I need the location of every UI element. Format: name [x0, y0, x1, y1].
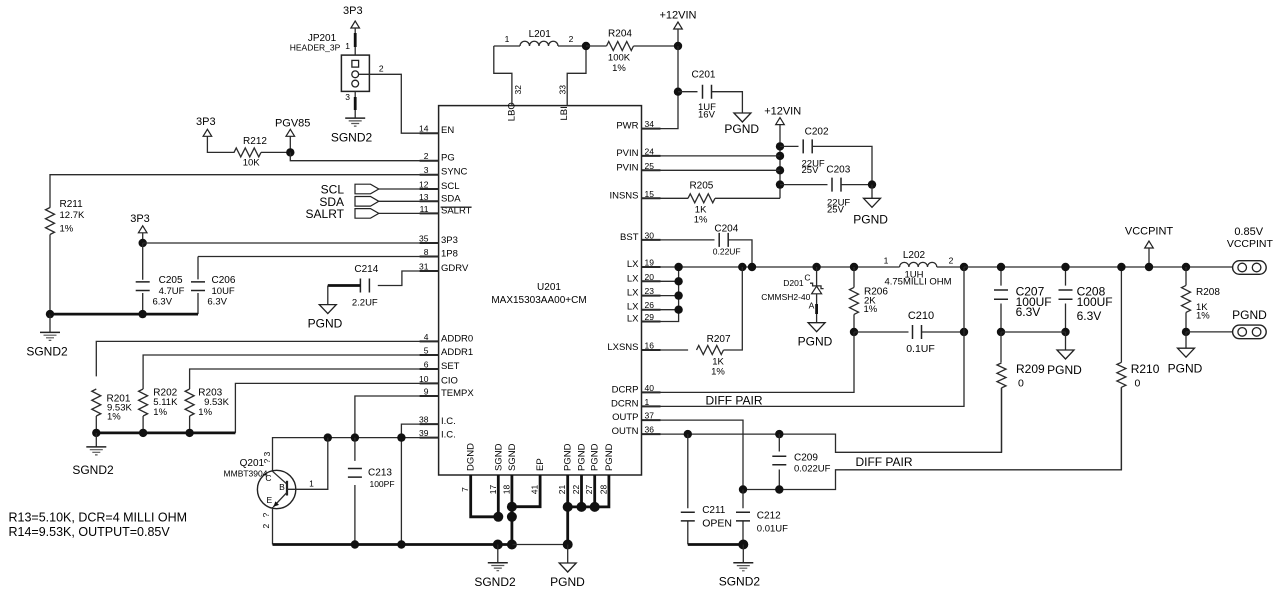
svg-text:PVIN: PVIN	[616, 162, 638, 173]
svg-text:Q201: Q201	[240, 458, 265, 469]
svg-text:+12VIN: +12VIN	[764, 106, 801, 118]
svg-text:OPEN: OPEN	[702, 518, 732, 530]
capacitor C213 100PF	[348, 438, 395, 545]
node pin39/TEMPX junction	[351, 433, 359, 441]
pin 12 SCL (U201 left)	[419, 180, 459, 193]
node OUTP C212 junction	[739, 485, 747, 493]
wire bottom SGND2 bus	[273, 543, 512, 546]
node R207 junction	[738, 263, 746, 271]
svg-text:DIFF PAIR: DIFF PAIR	[705, 394, 762, 408]
svg-text:3P3: 3P3	[196, 116, 216, 128]
capacitor C206 10UF 6.3V	[191, 257, 236, 315]
wire bus to PGND node	[512, 544, 568, 546]
wire JP201 pin3 to ground	[345, 91, 355, 118]
svg-text:SGND: SGND	[507, 443, 518, 471]
svg-text:R208: R208	[1196, 287, 1220, 298]
svg-text:100UF: 100UF	[1077, 295, 1113, 309]
svg-text:SGND2: SGND2	[474, 575, 516, 589]
node PGV85 junction	[286, 148, 294, 156]
node 3P3 junction	[139, 239, 147, 247]
svg-text:R210: R210	[1131, 362, 1160, 376]
pin 19 LX (U201 right)	[627, 258, 661, 271]
wire C211 to C212 bottom	[688, 543, 744, 546]
node bus SGND2 junction	[493, 540, 503, 550]
svg-text:10UF: 10UF	[212, 286, 235, 297]
node OUTN C209 junction	[775, 430, 783, 438]
svg-text:C210: C210	[908, 310, 934, 322]
power net +12VIN (top)	[660, 10, 697, 30]
svg-text:0: 0	[1018, 378, 1024, 390]
svg-text:37: 37	[645, 411, 655, 421]
resistor R203 9.53K 1%	[185, 388, 229, 419]
wire U201 INSNS pin15 to R205	[642, 197, 689, 199]
ground PGND (D201)	[798, 323, 833, 349]
pin 16 LXSNS (U201 right)	[607, 341, 660, 354]
wire U201 OUTN pin36 to R209 (diff pair)	[642, 388, 1002, 452]
svg-text:EN: EN	[441, 125, 454, 136]
resistor R211 12.7K 1%	[46, 199, 85, 235]
wire C201 to PGND	[712, 92, 743, 113]
svg-text:PGV85: PGV85	[275, 118, 310, 130]
svg-text:PGND: PGND	[1168, 362, 1203, 376]
pin 24 PVIN (U201 right)	[616, 146, 660, 159]
pin 25 PVIN (U201 right)	[616, 161, 660, 174]
ground PGND (C208)	[1047, 332, 1082, 377]
svg-text:VCCPINT: VCCPINT	[1125, 226, 1174, 238]
svg-text:2: 2	[379, 64, 384, 74]
wire C204 down to LX node	[728, 240, 752, 267]
wire DCRP pin40 to R206 bottom	[642, 332, 855, 392]
svg-text:PG: PG	[441, 153, 455, 164]
node +12VIN junction	[674, 42, 682, 50]
ground PGND (C203)	[853, 198, 888, 226]
pin 26 LX (U201 right)	[627, 300, 661, 313]
ground PGND (below U201)	[550, 545, 585, 590]
pin 8 1P8 (U201 left)	[420, 247, 458, 260]
resistor R202 5.11K 1%	[139, 388, 178, 419]
capacitor C212 0.01UF	[736, 490, 788, 545]
svg-text:12: 12	[419, 180, 429, 190]
wire U201 LX pin26	[642, 309, 679, 311]
node L202 out junction	[960, 263, 968, 271]
ground SGND2 (below U201)	[474, 545, 516, 590]
pin 18 SGND (U201 bottom)	[501, 443, 518, 494]
svg-text:GDRV: GDRV	[441, 263, 469, 274]
node pin27 junction	[590, 502, 600, 512]
node LX26 junction	[674, 306, 682, 314]
svg-text:1%: 1%	[1196, 311, 1210, 322]
svg-text:INSNS: INSNS	[609, 190, 638, 201]
wire U201 I.C. pin39 to Q201 collector	[273, 438, 439, 472]
pin 7 DGND (U201 bottom)	[460, 443, 477, 492]
wire C207-C208 ground bus	[1001, 331, 1066, 333]
svg-text:15: 15	[645, 189, 655, 199]
svg-text:0.01UF: 0.01UF	[757, 524, 788, 535]
wire DCRN pin1 up to L202 node	[642, 267, 965, 406]
pin 34 PWR (U201 right)	[616, 119, 660, 132]
wire resistor ground bus	[96, 431, 235, 434]
pin 23 LX (U201 right)	[627, 286, 661, 299]
svg-text:1%: 1%	[612, 63, 626, 74]
ground SGND2 (below R211)	[26, 332, 68, 358]
svg-text:40: 40	[645, 383, 655, 393]
svg-text:C205: C205	[159, 275, 183, 286]
pin 9 TEMPX (U201 left)	[420, 387, 475, 400]
svg-text:?: ?	[261, 513, 271, 518]
svg-text:DCRP: DCRP	[612, 384, 639, 395]
wire U201 BST pin30 to C204	[642, 239, 715, 241]
svg-text:SGND2: SGND2	[331, 131, 373, 145]
svg-text:19: 19	[645, 258, 655, 268]
wire U201 LX pin23	[642, 295, 679, 297]
svg-text:11: 11	[420, 204, 429, 214]
pin 39 I.C. (U201 left)	[419, 428, 456, 441]
node pin17 junction	[493, 512, 503, 522]
svg-text:PGND: PGND	[308, 317, 343, 331]
node LX20 junction	[674, 277, 682, 285]
pin 27 PGND (U201 bottom)	[584, 443, 601, 494]
svg-text:2: 2	[949, 256, 954, 266]
svg-text:L201: L201	[529, 29, 552, 40]
svg-text:R212: R212	[243, 136, 267, 147]
svg-text:SGND2: SGND2	[26, 345, 68, 359]
node C210 right junction	[960, 328, 968, 336]
svg-text:SET: SET	[441, 361, 460, 372]
svg-text:A: A	[809, 301, 815, 311]
svg-text:4: 4	[424, 332, 429, 342]
capacitor C211 OPEN	[681, 434, 732, 544]
inductor L201	[494, 29, 586, 46]
node bus C213 junction	[351, 540, 359, 548]
svg-text:LX: LX	[627, 259, 639, 270]
svg-text:17: 17	[488, 485, 498, 495]
ground PGND (C201)	[724, 113, 759, 136]
node PVIN25 junction	[776, 166, 784, 174]
svg-text:24: 24	[645, 146, 655, 156]
pin 36 OUTN (U201 right)	[612, 425, 661, 438]
pin 15 INSNS (U201 right)	[609, 189, 660, 202]
wire pin18 SGND down to bus	[510, 475, 513, 545]
svg-text:6.3V: 6.3V	[153, 297, 173, 308]
node pin22 junction	[577, 502, 587, 512]
svg-text:1: 1	[309, 479, 314, 489]
svg-text:31: 31	[419, 262, 429, 272]
svg-text:MAX15303AA00+CM: MAX15303AA00+CM	[491, 295, 586, 306]
wire R208 to PGND connector	[1186, 331, 1233, 333]
resistor R212 10K	[234, 136, 267, 169]
svg-text:LX: LX	[627, 314, 639, 325]
node LX19 junction	[674, 263, 682, 271]
node C212 bottom junction	[738, 540, 748, 550]
transistor Q201 MMBT3904	[224, 438, 328, 545]
svg-text:3P3: 3P3	[130, 213, 150, 225]
svg-text:1%: 1%	[153, 407, 167, 418]
power net VCCPINT	[1125, 226, 1174, 268]
resistor R209 0	[997, 332, 1045, 452]
svg-text:EP: EP	[535, 458, 546, 471]
wire pin28 PGND down	[568, 475, 609, 507]
svg-text:41: 41	[530, 485, 540, 495]
svg-text:E: E	[266, 495, 272, 505]
pin 38 I.C. (U201 left)	[419, 415, 456, 428]
svg-text:TEMPX: TEMPX	[441, 388, 474, 399]
pin 4 ADDR0 (U201 left)	[420, 332, 474, 345]
svg-text:32: 32	[513, 85, 523, 95]
svg-text:1P8: 1P8	[441, 249, 458, 260]
svg-text:16V: 16V	[698, 109, 716, 120]
node pin18/pin7 junction	[507, 512, 517, 522]
svg-text:34: 34	[645, 119, 655, 129]
pin 21 PGND (U201 bottom)	[557, 443, 574, 494]
svg-text:DCRN: DCRN	[611, 398, 639, 409]
svg-text:PGND: PGND	[563, 443, 574, 471]
svg-text:PVIN: PVIN	[616, 148, 638, 159]
capacitor C202 22UF 25V	[780, 127, 872, 185]
wire U201 PVIN pin24	[642, 155, 781, 157]
svg-text:SGND2: SGND2	[719, 575, 761, 589]
svg-text:R204: R204	[608, 29, 632, 40]
ground SGND2 (below JP201)	[331, 118, 373, 144]
svg-text:6.3V: 6.3V	[1077, 309, 1102, 323]
node R201 bus junction	[92, 429, 100, 437]
svg-text:LBI: LBI	[559, 106, 570, 120]
node C203 PGND junction	[868, 180, 876, 188]
node LX23 junction	[674, 291, 682, 299]
wire U201 I.C. pin38 to bus	[401, 424, 438, 544]
svg-text:30: 30	[645, 230, 655, 240]
node R206 top junction	[850, 263, 858, 271]
svg-text:1: 1	[505, 34, 510, 44]
svg-text:LX: LX	[627, 273, 639, 284]
svg-text:C201: C201	[692, 70, 716, 81]
wire pin22 PGND down	[580, 475, 583, 507]
svg-text:33: 33	[558, 85, 568, 95]
net label 0.85V VCCPINT	[1227, 226, 1274, 250]
svg-text:C: C	[265, 473, 271, 483]
svg-text:25: 25	[645, 161, 655, 171]
node pin39/pin38 junction	[397, 433, 405, 441]
svg-text:SALRT: SALRT	[306, 207, 345, 221]
wire U201 CIO pin10 to resistor bus	[235, 383, 438, 433]
wire OUTP lower row to R210	[743, 387, 1121, 489]
svg-text:1%: 1%	[711, 367, 725, 378]
wire VCC rail L202 to connector	[964, 266, 1233, 268]
svg-text:PGND: PGND	[1047, 363, 1082, 377]
svg-text:C213: C213	[368, 468, 392, 479]
svg-text:I.C.: I.C.	[441, 430, 456, 441]
pin 33 LBI (U201 top)	[558, 85, 571, 121]
svg-text:14: 14	[419, 124, 429, 134]
node R208 bottom junction	[1182, 328, 1190, 336]
svg-text:HEADER_3P: HEADER_3P	[290, 43, 341, 53]
svg-text:18: 18	[501, 485, 511, 495]
svg-text:35: 35	[419, 234, 429, 244]
pin 22 PGND (U201 bottom)	[571, 443, 588, 494]
wire U201 GDRV pin31 to C214	[378, 271, 439, 286]
svg-text:C211: C211	[702, 505, 726, 516]
svg-text:36: 36	[645, 425, 655, 435]
svg-text:DGND: DGND	[466, 443, 477, 471]
svg-text:LX: LX	[627, 288, 639, 299]
svg-text:1%: 1%	[60, 224, 74, 235]
svg-text:1%: 1%	[198, 407, 212, 418]
node C205 ground junction	[138, 310, 146, 318]
svg-text:12.7K: 12.7K	[60, 210, 85, 221]
resistor R206 2K 1%	[850, 267, 889, 332]
node R206 bottom junction	[850, 328, 858, 336]
svg-text:R207: R207	[707, 334, 731, 345]
resistor R201 9.53K 1%	[92, 389, 133, 423]
svg-text:CMMSH2-40: CMMSH2-40	[761, 292, 810, 302]
svg-text:ADDR1: ADDR1	[441, 347, 473, 358]
svg-text:R209: R209	[1016, 362, 1045, 376]
svg-text:0.1UF: 0.1UF	[906, 343, 935, 355]
svg-text:VCCPINT: VCCPINT	[1227, 238, 1274, 250]
resistor R208 1K 1%	[1182, 267, 1221, 332]
svg-text:5: 5	[424, 346, 429, 356]
svg-text:8: 8	[424, 247, 429, 257]
svg-text:10: 10	[419, 374, 429, 384]
capacitor C208 100UF 6.3V	[1059, 267, 1113, 332]
svg-text:39: 39	[419, 428, 429, 438]
svg-text:6.3V: 6.3V	[207, 297, 227, 308]
pin 31 GDRV (U201 left)	[419, 262, 469, 275]
ground PGND (R208)	[1168, 348, 1203, 375]
wire 3P3 to R212	[207, 136, 234, 152]
svg-text:PGND: PGND	[604, 443, 615, 471]
svg-text:D201: D201	[783, 278, 804, 288]
node C201 junction	[674, 88, 682, 96]
svg-text:C209: C209	[794, 453, 818, 464]
node R208 top junction	[1182, 263, 1190, 271]
svg-text:0.85V: 0.85V	[1234, 226, 1263, 238]
wire R204 to +12VIN node	[634, 45, 679, 47]
pin 35 3P3 (U201 left)	[419, 234, 458, 247]
net flag SDA	[319, 195, 438, 209]
node pin18/EP junction	[507, 502, 517, 512]
power net 3P3 (left, C205)	[130, 213, 150, 233]
pin 20 LX (U201 right)	[627, 272, 661, 285]
wire U201 ADDR0 pin4 to R201	[96, 341, 438, 376]
pin 17 SGND (U201 bottom)	[488, 443, 505, 494]
svg-text:1: 1	[645, 397, 650, 407]
node R210 junction	[1117, 263, 1125, 271]
svg-text:PGND: PGND	[590, 443, 601, 471]
pin 30 BST (U201 right)	[620, 230, 660, 243]
wire +12VIN rail down	[779, 125, 781, 199]
svg-text:C202: C202	[805, 127, 829, 138]
wire pin27 PGND down	[593, 475, 596, 507]
wire L201 to R204	[586, 45, 607, 47]
inductor L202 1UH 4.75MILLI OHM	[884, 250, 964, 288]
node OUTN C211 junction	[684, 430, 692, 438]
wire pin41 EP down	[512, 475, 540, 507]
svg-text:3: 3	[262, 452, 272, 457]
svg-text:SCL: SCL	[441, 181, 459, 192]
svg-text:C204: C204	[714, 224, 738, 235]
resistor R204 100K 1%	[607, 29, 634, 75]
svg-text:1: 1	[884, 256, 889, 266]
ground PGND (below C214)	[308, 305, 343, 331]
svg-text:2.2UF: 2.2UF	[352, 298, 378, 309]
wire pin17 SGND down	[497, 475, 500, 517]
capacitor C204 0.22UF	[713, 224, 741, 257]
pin 3 SYNC (U201 left)	[420, 165, 468, 178]
svg-text:+12VIN: +12VIN	[660, 10, 697, 22]
svg-text:PGND: PGND	[724, 122, 759, 136]
connector JP201 HEADER_3P	[290, 33, 370, 91]
svg-text:R14=9.53K, OUTPUT=0.85V: R14=9.53K, OUTPUT=0.85V	[9, 525, 171, 539]
svg-text:4.7UF: 4.7UF	[159, 286, 185, 297]
wire R211 to ground bus	[49, 235, 51, 315]
capacitor C203 22UF 25V	[780, 165, 872, 216]
wire U201 ADDR1 pin5 to R202	[143, 355, 439, 389]
svg-text:SDA: SDA	[441, 193, 461, 204]
svg-text:PGND: PGND	[1232, 308, 1267, 322]
svg-text:6.3V: 6.3V	[1016, 305, 1041, 319]
node L201 pin2 junction	[582, 42, 590, 50]
wire U201 LBI pin33 up	[567, 46, 586, 106]
wire ground bus C205-C206	[50, 313, 198, 316]
svg-text:OUTP: OUTP	[612, 412, 638, 423]
svg-text:100PF: 100PF	[369, 479, 394, 489]
wire R207 up to LX node	[724, 267, 743, 350]
node R203 bus junction	[185, 429, 193, 437]
pin 10 CIO (U201 left)	[419, 374, 458, 387]
svg-text:SGND: SGND	[493, 443, 504, 471]
svg-text:LXSNS: LXSNS	[607, 342, 638, 353]
pin 40 DCRP (U201 right)	[612, 383, 661, 396]
op-amp U1: IC U201 MAX15303AA00+CM body	[439, 106, 642, 475]
pin 11 SALRT (U201 left)	[420, 204, 472, 217]
node pin39/base junction	[324, 433, 332, 441]
svg-text:3P3: 3P3	[441, 235, 458, 246]
svg-text:2: 2	[569, 34, 574, 44]
node C207 top junction	[997, 263, 1005, 271]
svg-text:22: 22	[571, 485, 581, 495]
wire R212 to PGV85 node	[261, 151, 290, 153]
node D201 junction	[812, 263, 820, 271]
svg-text:B: B	[279, 482, 285, 492]
pin 5 ADDR1 (U201 left)	[420, 346, 474, 359]
wire U201 OUTP pin37 route	[642, 420, 744, 489]
wire R201 to ground	[95, 433, 97, 447]
wire +12VIN down to PWR	[642, 46, 679, 129]
svg-text:27: 27	[584, 485, 594, 495]
capacitor C201 1UF 16V	[678, 70, 716, 121]
capacitor C205 4.7UF 6.3V	[136, 243, 185, 314]
node pin21 bus junction	[563, 540, 573, 550]
pin 6 SET (U201 left)	[420, 360, 460, 373]
svg-text:23: 23	[645, 286, 655, 296]
node C207 bottom junction	[997, 328, 1005, 336]
wire U201 SET pin6 to R203	[190, 369, 439, 389]
diode D201 CMMSH2-40 schottky	[761, 267, 823, 323]
resistor R210 0	[1117, 267, 1160, 470]
svg-text:21: 21	[557, 485, 567, 495]
capacitor C214 2.2UF	[352, 264, 379, 309]
wire pin7 DGND down	[471, 475, 499, 517]
connector J 0.85V output	[1233, 261, 1267, 275]
svg-text:PGND: PGND	[550, 575, 585, 589]
svg-text:R205: R205	[689, 181, 713, 192]
node bus pin38 junction	[397, 540, 405, 548]
wire U201 LXSNS pin16 to R207	[642, 349, 689, 351]
pin 32 LBO (U201 top)	[507, 85, 524, 121]
svg-text:PGND: PGND	[798, 335, 833, 349]
svg-text:1%: 1%	[694, 215, 708, 226]
svg-text:CIO: CIO	[441, 375, 458, 386]
